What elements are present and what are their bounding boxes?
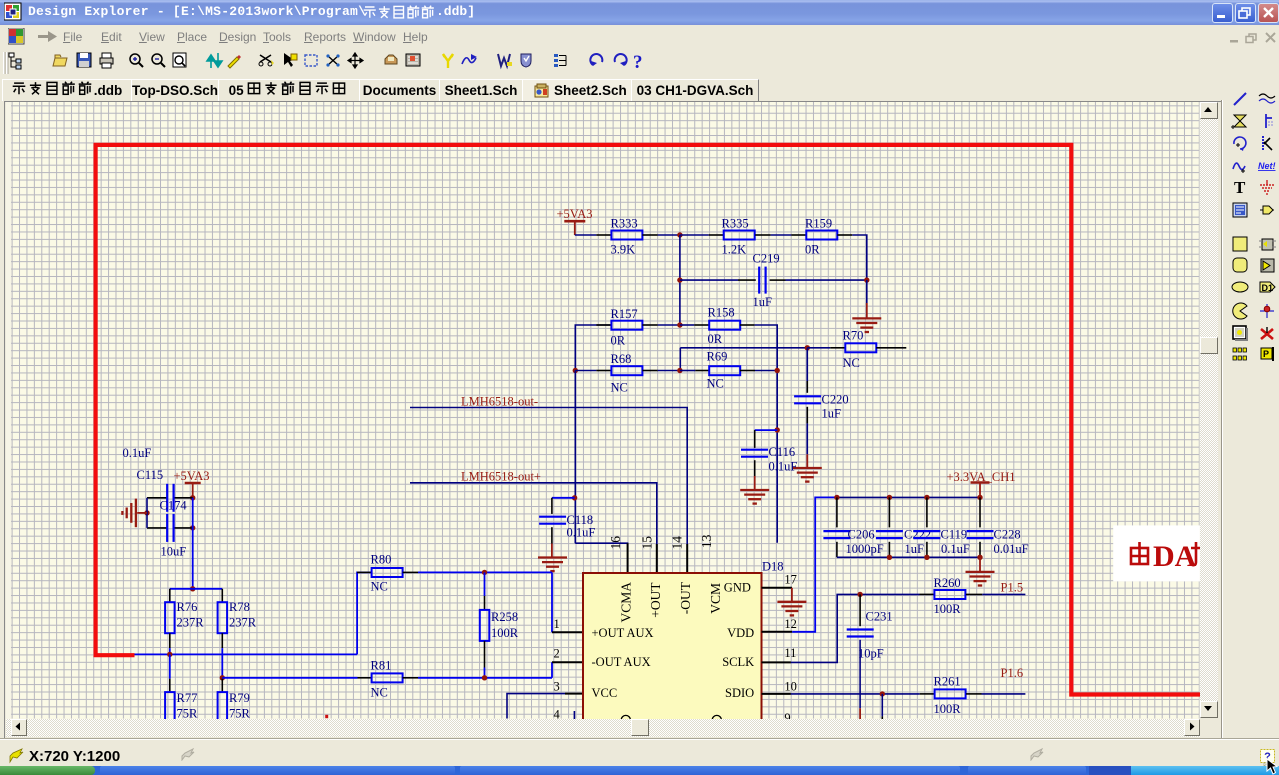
- wire VCC: [507, 694, 565, 719]
- toolbar icon undo: [590, 54, 602, 66]
- wire C118 stub: [552, 497, 575, 499]
- junction gnd stub: [144, 510, 149, 515]
- wire R159 to node B: [852, 235, 867, 280]
- svg-text:LMH6518-out-: LMH6518-out-: [461, 394, 538, 408]
- pin lead R158.1: [694, 324, 709, 326]
- svg-text:C115: C115: [137, 468, 164, 482]
- toolbar icon shield2: [521, 54, 531, 67]
- wire R78 to R79: [221, 648, 223, 678]
- svg-text:SDIO: SDIO: [725, 686, 754, 700]
- svg-text:+OUT: +OUT: [648, 582, 663, 618]
- wire C115-C174 left: [146, 498, 148, 528]
- h-scroll thumb: [631, 719, 649, 737]
- palette icon part: [1231, 112, 1249, 130]
- svg-text:T: T: [1234, 178, 1246, 196]
- power +3.3VA_CH1 stem: [979, 483, 981, 498]
- junction C228 bottom: [977, 555, 982, 560]
- pin lead R69.1: [695, 370, 709, 372]
- junction C220 top: [805, 345, 810, 350]
- svg-text:R70: R70: [843, 329, 864, 343]
- svg-text:R78: R78: [229, 600, 250, 614]
- ground (C116): [740, 490, 769, 504]
- pin lead C220.2: [806, 407, 808, 424]
- svg-text:4: 4: [554, 707, 561, 719]
- svg-text:2: 2: [554, 647, 560, 661]
- svg-text:R81: R81: [371, 659, 392, 673]
- junction R258 bottom: [482, 675, 487, 680]
- pin lead R77.1: [169, 679, 171, 692]
- toolbar icon wand: [228, 55, 241, 68]
- svg-text:VCC: VCC: [592, 686, 618, 700]
- resistor R76: [165, 602, 175, 633]
- palette icon delete: [1258, 324, 1276, 342]
- resistor R77: [165, 692, 175, 722]
- svg-text:R335: R335: [722, 217, 749, 231]
- capacitor C220: [794, 396, 821, 403]
- wire pin16 route: [575, 543, 627, 544]
- ground stem (R159): [866, 303, 868, 318]
- svg-text:0.1uF: 0.1uF: [941, 542, 970, 556]
- svg-text:GND: GND: [724, 580, 751, 594]
- wire junction to R69: [680, 370, 695, 372]
- svg-text:-OUT AUX: -OUT AUX: [592, 655, 651, 669]
- resistor R81: [372, 673, 403, 682]
- junction C119 bottom: [924, 555, 929, 560]
- toolbar: [0, 47, 1279, 78]
- wire bottom rail: [135, 653, 358, 655]
- pin lead R157.1: [596, 324, 611, 326]
- toolbar icon hierarchy: [554, 54, 566, 67]
- wire R80 left: [357, 572, 372, 654]
- pin lead C116.2: [754, 460, 756, 476]
- wire R69 to vertical: [755, 370, 777, 372]
- pin lead R68.2: [642, 370, 657, 372]
- pin lead R70.2 dangling: [876, 347, 906, 349]
- pin lead C118.1: [551, 498, 553, 514]
- svg-text:C222: C222: [904, 528, 931, 542]
- taskbar: [0, 766, 1279, 775]
- svg-text:C116: C116: [769, 445, 796, 459]
- junction R157/R158: [677, 322, 682, 327]
- pin lead C228.2: [979, 542, 981, 558]
- wire stub below pin4: [573, 711, 575, 719]
- palette icon power port: [1258, 178, 1276, 196]
- wire R261 to P1.6: [982, 693, 1026, 695]
- pin lead C118.2: [551, 527, 553, 543]
- pin lead R76.2: [169, 633, 171, 648]
- junction R76/R78 top: [190, 586, 195, 591]
- pin lead D18.16: [627, 543, 629, 573]
- capacitor C118: [539, 517, 566, 524]
- palette icon paste picture: [1231, 324, 1249, 342]
- toolbar icon tool15: [385, 55, 397, 64]
- ground (left, rotated): [122, 499, 135, 528]
- svg-text:P1.6: P1.6: [1001, 666, 1024, 680]
- pin lead C206.2: [836, 542, 838, 558]
- wire to R68: [575, 370, 596, 372]
- svg-text:C228: C228: [994, 528, 1021, 542]
- wire junction to R158: [680, 324, 694, 326]
- svg-text:13: 13: [699, 534, 714, 548]
- wire +5VA3 to R333: [575, 234, 597, 236]
- palette icon rectangle: [1231, 235, 1249, 253]
- toolbar icon cut: [259, 55, 274, 66]
- ground (R159 node): [852, 318, 881, 332]
- wire LMH6518-out+: [410, 483, 657, 544]
- toolbar icon open: [53, 55, 67, 66]
- toolbar icon selection: [305, 55, 317, 66]
- wire R335 to R159: [771, 234, 792, 236]
- wire LMH6518-out-: [410, 408, 687, 545]
- svg-text:DA: DA: [1153, 540, 1197, 573]
- pin lead R335.2: [755, 234, 770, 236]
- ground (C118): [538, 558, 567, 572]
- capacitor C206: [823, 531, 850, 538]
- junction R69 right: [775, 368, 780, 373]
- resistor R68: [611, 366, 642, 375]
- svg-text:16: 16: [608, 536, 623, 550]
- wire SDIO: [791, 693, 920, 695]
- frame bottom shadow: [0, 738, 1279, 740]
- grid field: [11, 102, 1199, 719]
- svg-text:11: 11: [784, 646, 796, 660]
- svg-text:75R: 75R: [229, 706, 251, 719]
- junction R68/R69: [677, 368, 682, 373]
- svg-text:0.01uF: 0.01uF: [994, 542, 1029, 556]
- resistor R258: [480, 610, 490, 641]
- pin lead C220.1: [806, 381, 808, 393]
- svg-text:14: 14: [669, 536, 684, 550]
- junction C222 bottom: [887, 555, 892, 560]
- svg-text:NC: NC: [707, 377, 724, 391]
- svg-text:VDD: VDD: [727, 626, 754, 640]
- svg-text:NC: NC: [371, 580, 388, 594]
- pin lead R260.1: [920, 593, 935, 595]
- wire R80 to pin1: [418, 571, 552, 573]
- pin lead C119.1: [926, 497, 928, 527]
- pin lead D18.10: [762, 693, 791, 695]
- svg-text:0.1uF: 0.1uF: [567, 526, 596, 540]
- palette icon polyline: [1258, 134, 1276, 152]
- toolbar icon move: [348, 53, 363, 68]
- svg-text:1uF: 1uF: [905, 542, 925, 556]
- svg-text:1uF: 1uF: [822, 406, 842, 420]
- pin lead R261.2: [966, 693, 981, 695]
- wire R81 row left: [222, 677, 357, 679]
- power +5VA3 stem: [574, 221, 576, 235]
- wire R81 to pin2: [418, 677, 552, 679]
- pin lead R79.1: [221, 679, 223, 692]
- junction C222 top: [887, 495, 892, 500]
- svg-text:0.1uF: 0.1uF: [123, 446, 152, 460]
- pin lead C119.2: [926, 542, 928, 558]
- resistor R158: [709, 321, 740, 330]
- toolbar icon shieldW: [498, 54, 512, 66]
- pin lead C219.1: [738, 279, 756, 281]
- svg-text:3: 3: [554, 680, 560, 694]
- svg-text:LMH6518-out+: LMH6518-out+: [461, 469, 541, 483]
- pin lead D18.3: [565, 693, 583, 695]
- wire R76 to R77: [169, 654, 171, 678]
- wire R260 to P1.5: [982, 593, 1025, 595]
- ground stem (C116): [754, 476, 756, 490]
- svg-text:C119: C119: [941, 528, 968, 542]
- pin lead R157.2: [642, 324, 657, 326]
- svg-text:R76: R76: [177, 600, 198, 614]
- toolbar icon deselect: [326, 54, 339, 66]
- disabled child window buttons: [1229, 31, 1277, 49]
- toolbar icon simulate: [462, 54, 477, 64]
- pin lead R69.2: [740, 370, 755, 372]
- resistor R159: [806, 231, 837, 240]
- pin lead C174.2: [174, 527, 193, 529]
- junction C228 top: [977, 495, 982, 500]
- wire R333 to node A: [658, 234, 680, 236]
- pin lead R80.1: [357, 571, 372, 573]
- annotation text 由DA: [1131, 542, 1200, 565]
- pin lead R261.1: [920, 693, 935, 695]
- junction C119 top: [924, 495, 929, 500]
- svg-text:P: P: [1263, 349, 1269, 359]
- toolbar icon redo: [615, 54, 627, 66]
- tab bar: [0, 78, 1279, 101]
- svg-text:1000pF: 1000pF: [846, 542, 884, 556]
- junction node B: [864, 277, 869, 282]
- pin lead C174.1: [147, 527, 167, 529]
- svg-text:100R: 100R: [934, 602, 962, 616]
- svg-text:R159: R159: [805, 217, 832, 231]
- pin lead D18.1: [552, 631, 583, 633]
- wire VDD riser: [792, 497, 837, 631]
- resistor R70: [845, 343, 876, 352]
- pin lead R78.1: [221, 589, 223, 602]
- svg-text:P1.5: P1.5: [1001, 581, 1024, 595]
- palette icon ellipse: [1231, 278, 1249, 296]
- pin lead C222.1: [888, 497, 890, 527]
- pin lead R78.2: [221, 633, 223, 648]
- svg-text:+OUT AUX: +OUT AUX: [592, 626, 654, 640]
- svg-text:1: 1: [554, 617, 560, 631]
- svg-text:237R: 237R: [177, 616, 205, 630]
- pin lead R81.2: [403, 677, 418, 679]
- svg-text:R258: R258: [491, 610, 518, 624]
- wire +5VA3 rail down: [192, 498, 194, 589]
- svg-text:10: 10: [784, 679, 797, 693]
- palette icon graphic: [1258, 256, 1276, 274]
- wire C220 bottom: [806, 423, 808, 454]
- horizontal scrollbar: [6, 719, 1200, 737]
- capacitor C222: [876, 531, 903, 538]
- toolbar icon explorer tree: [9, 53, 21, 69]
- svg-text:C231: C231: [866, 610, 893, 624]
- svg-text:R333: R333: [611, 217, 638, 231]
- toolbar icon tool16: [406, 54, 420, 66]
- wire R157 to R158: [658, 324, 680, 326]
- resistor R80: [372, 568, 403, 577]
- toolbar icon zoom in: [130, 54, 143, 67]
- palette icon arc: [1231, 134, 1249, 152]
- toolbar grip: [4, 52, 7, 74]
- wire node A down: [679, 235, 681, 325]
- svg-text:?: ?: [633, 52, 643, 73]
- power stem (C231, clipped): [859, 708, 861, 719]
- svg-text:VCM: VCM: [708, 583, 723, 614]
- svg-text:R158: R158: [708, 306, 735, 320]
- wire node A to R335: [680, 234, 709, 236]
- svg-text:NC: NC: [371, 686, 388, 700]
- junction C231 top: [857, 592, 862, 597]
- capacitor C219: [759, 267, 765, 294]
- ground (pin17): [777, 602, 806, 616]
- junction C174 right: [190, 525, 195, 530]
- svg-text:C220: C220: [822, 392, 849, 406]
- v-scroll thumb: [1200, 337, 1218, 354]
- pin lead C115.1: [147, 497, 167, 499]
- capacitor C174: [167, 514, 173, 542]
- toolbar icon wrench: [443, 54, 453, 68]
- toolbar icon zoom doc: [173, 53, 186, 67]
- wire long left vertical: [574, 371, 576, 544]
- resistor R78: [218, 602, 228, 633]
- resistor R261: [935, 689, 966, 698]
- power symbol +3.3VA_CH1 bar: [947, 470, 1016, 484]
- svg-text:10pF: 10pF: [858, 647, 884, 661]
- ground stem (C118): [551, 544, 553, 558]
- pin lead R333.2: [642, 234, 657, 236]
- capacitor C115: [167, 484, 173, 512]
- ground (cap bank): [966, 572, 995, 586]
- pin lead C222.2: [888, 542, 890, 558]
- palette icon sheet symbol: [1231, 201, 1249, 219]
- svg-text:0.1uF: 0.1uF: [769, 460, 798, 474]
- palette icon round rectangle: [1231, 256, 1249, 274]
- junction R79 top: [220, 675, 225, 680]
- svg-text:3.9K: 3.9K: [611, 243, 636, 257]
- svg-text:R80: R80: [371, 552, 392, 566]
- svg-text:R261: R261: [934, 675, 961, 689]
- palette icon port: [1258, 201, 1276, 219]
- svg-text:+3.3VA_CH1: +3.3VA_CH1: [947, 470, 1016, 484]
- palette icon bus entry: [1258, 112, 1276, 130]
- palette icon probe D1: [1258, 278, 1276, 296]
- svg-text:R68: R68: [611, 352, 632, 366]
- wire pin1 drop: [551, 572, 553, 632]
- wire junction to R70: [807, 347, 830, 349]
- wire R70 row: [680, 347, 807, 349]
- wire cap bank top: [837, 496, 980, 498]
- pin lead D18.17: [762, 587, 793, 589]
- palette icon net label: [1258, 157, 1276, 175]
- junction node A: [677, 232, 682, 237]
- palette icon wire: [1231, 90, 1249, 108]
- pin lead R333.1: [596, 234, 611, 236]
- resistor R335: [724, 231, 755, 240]
- junction R76 bottom: [167, 652, 172, 657]
- wire R258 bottom: [484, 668, 486, 678]
- red highlight border: [96, 145, 1200, 695]
- junction C115 right: [190, 495, 195, 500]
- svg-text:R77: R77: [177, 691, 198, 705]
- IC bottom circles: [621, 715, 630, 724]
- pin lead C116.1: [754, 430, 756, 448]
- svg-text:C219: C219: [753, 252, 780, 266]
- wire C219 to node B: [786, 279, 867, 281]
- pin lead R258.1: [484, 596, 486, 610]
- wire C116 stub: [755, 429, 778, 431]
- svg-text:0R: 0R: [708, 332, 723, 346]
- pin lead C206.1: [836, 497, 838, 527]
- svg-text:D1: D1: [1262, 283, 1274, 293]
- wire node B down: [866, 280, 868, 303]
- pin lead C231.1: [859, 594, 861, 626]
- svg-text:1uF: 1uF: [753, 295, 773, 309]
- svg-text:75R: 75R: [177, 706, 199, 719]
- sheet margin: [6, 102, 1200, 719]
- pin lead R258.2: [484, 641, 486, 668]
- v-scroll up button: [1200, 102, 1218, 119]
- junction C206 top: [834, 495, 839, 500]
- svg-text:R79: R79: [229, 691, 250, 705]
- svg-text:10uF: 10uF: [161, 545, 187, 559]
- svg-text:R157: R157: [611, 307, 638, 321]
- svg-text:R69: R69: [707, 350, 728, 364]
- wire C220 top: [806, 348, 808, 381]
- palette icon signal: [1231, 157, 1249, 175]
- svg-text:-OUT: -OUT: [678, 581, 693, 614]
- power symbol +5VA3 (left) bar: [174, 469, 210, 483]
- ground stem (C220): [806, 454, 808, 468]
- toolbar icon print: [100, 53, 113, 68]
- pin lead D18.14: [686, 544, 688, 573]
- wire SCLK to R260: [791, 594, 920, 662]
- pin lead R159.2: [837, 234, 852, 236]
- wire to C219: [680, 279, 738, 281]
- pin lead C219.2: [770, 279, 786, 281]
- wire R158 right drop to pin13 route: [755, 325, 778, 543]
- palette icon pie chart: [1231, 302, 1249, 320]
- svg-text:VCMA: VCMA: [618, 582, 633, 623]
- capacitor C228: [967, 531, 994, 538]
- resistor R79: [218, 692, 228, 722]
- svg-text:NC: NC: [611, 381, 628, 395]
- palette icon text tool: [1231, 178, 1249, 196]
- junction C118 stub: [572, 495, 577, 500]
- svg-text:12: 12: [784, 617, 797, 631]
- toolbar icon help: [633, 52, 643, 73]
- pin lead C115.2: [174, 497, 193, 499]
- wire SDIO branch down: [881, 694, 883, 717]
- junction R68 left: [573, 368, 578, 373]
- svg-text:+5VA3: +5VA3: [174, 469, 210, 483]
- capacitor C116: [741, 450, 768, 457]
- pin lead R81.1: [358, 677, 372, 679]
- pin lead R70.1: [830, 347, 845, 349]
- wire pin2 rise: [551, 662, 553, 678]
- wire R76-R78 top: [170, 588, 223, 590]
- menu bar: [0, 25, 1279, 47]
- wire R76 to bottom rail: [169, 648, 171, 654]
- resistor R157: [611, 321, 642, 330]
- toolbar icon updown: [207, 53, 222, 68]
- svg-text:Net!: Net!: [1258, 161, 1276, 171]
- toolbar icon zoom out: [152, 54, 165, 67]
- ground stub (left): [137, 512, 147, 514]
- pin lead D18.11: [762, 661, 791, 663]
- palette icon pins: [1231, 345, 1249, 363]
- svg-text:SCLK: SCLK: [722, 655, 754, 669]
- op-amp/IC D18 body: [583, 573, 762, 725]
- svg-text:C206: C206: [848, 528, 875, 542]
